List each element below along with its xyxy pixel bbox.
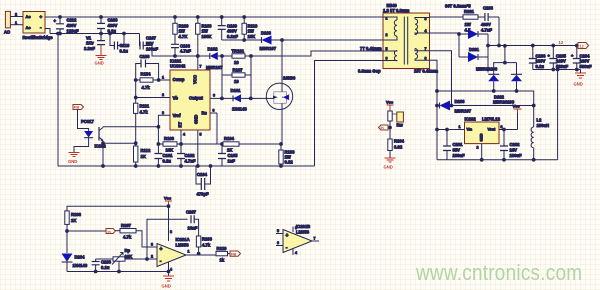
- svg-text:IC202: IC202: [465, 117, 477, 122]
- svg-text:4.7K: 4.7K: [179, 34, 188, 39]
- svg-text:7: 7: [425, 47, 427, 51]
- wire gate drive row to transformer pin5: [251, 51, 383, 56]
- wire parallel leg left: [221, 56, 223, 98]
- node junction RT row: [180, 143, 183, 146]
- wire Rs pin down to sense row: [216, 113, 218, 144]
- wire aux row to Vin: [437, 129, 465, 131]
- resistor R206: [65, 211, 82, 231]
- svg-text:+: +: [548, 53, 551, 58]
- transformer secondary winding 7-8: [415, 47, 430, 61]
- wire inverting row y259: [96, 258, 150, 260]
- diode D204 1N4148: [62, 254, 88, 272]
- svg-text:10: 10: [234, 60, 239, 65]
- svg-text:R154: R154: [141, 72, 152, 77]
- node junction R108 top: [196, 16, 199, 19]
- svg-text:+: +: [160, 247, 163, 253]
- svg-text:1W: 1W: [202, 29, 208, 34]
- svg-text:D201: D201: [469, 47, 480, 52]
- resistor R107: [222, 68, 251, 85]
- diode D202 MBR20200 pair: [488, 46, 522, 105]
- wire opamp low rail y271.5: [67, 271, 169, 273]
- svg-text:Rp: Rp: [125, 248, 131, 253]
- svg-text:MBR107: MBR107: [455, 109, 472, 114]
- svg-text:120uF: 120uF: [67, 29, 80, 34]
- pin 4 stub RT: [180, 130, 182, 144]
- svg-text:0.1u: 0.1u: [536, 64, 545, 69]
- resistor R204: [388, 139, 405, 159]
- svg-text:400V: 400V: [67, 23, 77, 28]
- svg-text:C105: C105: [228, 153, 239, 158]
- node junction R109 top: [174, 16, 177, 19]
- svg-text:R111: R111: [140, 104, 150, 109]
- svg-text:10: 10: [234, 79, 239, 84]
- wire bridge + to HV rail: [45, 16, 60, 18]
- svg-text:1: 1: [188, 250, 190, 254]
- wire regulator GND pin: [481, 144, 483, 160]
- svg-text:560uF: 560uF: [580, 64, 593, 69]
- node junction C108 bottom / V1 top: [100, 32, 103, 35]
- wire drain node to transformer pin2: [282, 39, 383, 41]
- node junction C112 top: [59, 16, 62, 19]
- svg-text:6: 6: [386, 57, 388, 61]
- op-amp IC201A LM358: [150, 237, 216, 267]
- svg-text:10N90: 10N90: [283, 76, 296, 81]
- svg-text:Output: Output: [189, 96, 203, 101]
- svg-text:C101: C101: [163, 153, 174, 158]
- svg-text:1N4148: 1N4148: [73, 263, 88, 268]
- capacitor C104 below rail: [196, 166, 211, 197]
- watermark www.cntronics.com: [416, 262, 582, 284]
- svg-text:2: 2: [477, 146, 479, 150]
- svg-text:0.2u: 0.2u: [163, 159, 172, 164]
- resistor R103: [163, 136, 177, 153]
- node junction opto emitter to rail: [102, 165, 105, 168]
- svg-text:2: 2: [386, 33, 388, 37]
- svg-text:16V: 16V: [510, 148, 518, 153]
- pin 5 stub GND: [197, 130, 199, 166]
- svg-text:C202: C202: [510, 142, 521, 147]
- svg-text:FB: FB: [231, 252, 236, 256]
- transformer aux winding 5-6: [383, 47, 397, 61]
- svg-text:Vcc: Vcc: [164, 196, 172, 201]
- wire opto emitter row: [103, 142, 136, 144]
- wire Vcc down to pin8: [168, 206, 170, 241]
- node junction C109 top: [220, 16, 223, 19]
- svg-text:UC3842: UC3842: [170, 64, 186, 69]
- wire aux row y105.5: [437, 105, 534, 107]
- node junction reg gnd: [480, 158, 483, 161]
- svg-text:Ac: Ac: [26, 14, 32, 19]
- pin 3 stub Rs: [210, 112, 217, 114]
- svg-text:TR101: TR101: [232, 49, 245, 54]
- node junction D202 right bottom: [515, 90, 518, 93]
- svg-text:1N4148: 1N4148: [232, 107, 247, 112]
- svg-text:7: 7: [200, 65, 202, 69]
- capacitor C105: [218, 144, 238, 166]
- capacitor C208: [92, 259, 112, 272]
- node junction C208 bottom: [94, 270, 97, 273]
- diode D102 MBR107: [198, 47, 223, 71]
- node junction R208 output: [197, 252, 200, 255]
- svg-text:+: +: [571, 53, 574, 58]
- svg-text:Vcc: Vcc: [386, 100, 394, 105]
- wire parallel leg right: [250, 56, 252, 98]
- svg-text:7: 7: [314, 237, 316, 241]
- svg-text:10K: 10K: [248, 34, 256, 39]
- wire neutral rail y33.5: [50, 33, 140, 35]
- node junction source node: [280, 143, 283, 146]
- node junction GND pin rail: [196, 165, 199, 168]
- svg-text:10K: 10K: [166, 148, 174, 153]
- svg-text:1Kv: 1Kv: [86, 41, 94, 46]
- node junction vcc opamp: [167, 205, 170, 208]
- svg-text:R201: R201: [464, 9, 475, 14]
- wire IC output to gate: [210, 97, 267, 99]
- port In right: [379, 125, 389, 130]
- resistor R106: [279, 144, 295, 166]
- resistor Rw trimmer: [388, 111, 404, 128]
- svg-text:0.1u: 0.1u: [120, 49, 129, 54]
- diode D101 1N4148: [231, 88, 248, 112]
- wire pin4 down: [168, 262, 170, 276]
- svg-text:Vb: Vb: [173, 96, 179, 101]
- svg-text:4.7nF: 4.7nF: [180, 49, 191, 54]
- capacitor C106: [171, 44, 191, 57]
- svg-text:100uF: 100uF: [510, 153, 523, 158]
- svg-text:IC201A: IC201A: [176, 237, 190, 242]
- svg-text:R107: R107: [233, 68, 244, 73]
- ground GND output: [574, 70, 587, 87]
- svg-text:400V: 400V: [108, 23, 118, 28]
- node junction D201 left: [458, 33, 461, 36]
- regulator IC202 LM78L12: [459, 117, 503, 150]
- svg-text:470pF: 470pF: [197, 192, 210, 197]
- svg-text:C203: C203: [483, 6, 494, 11]
- wire connector to bridge pin 1: [10, 24, 23, 26]
- svg-text:D101: D101: [231, 88, 242, 93]
- wire Vref pin to R103 leg: [158, 115, 170, 144]
- svg-text:400V: 400V: [227, 29, 237, 34]
- capacitor C202: [500, 130, 522, 160]
- svg-text:GND: GND: [480, 133, 484, 141]
- svg-text:4: 4: [425, 29, 427, 33]
- wire feedback up: [147, 219, 188, 259]
- ground GND under V1: [95, 45, 107, 66]
- svg-text:1W: 1W: [465, 22, 471, 27]
- port In left: [106, 229, 116, 234]
- capacitor C110: [114, 42, 130, 54]
- wire pin4 to D201: [430, 33, 460, 57]
- resistor R110: [242, 17, 258, 40]
- wire snubber down to output row: [498, 17, 500, 46]
- svg-text:1: 1: [386, 17, 388, 21]
- node junction In node: [389, 126, 392, 129]
- capacitor C108: [97, 17, 118, 34]
- node junction C110 right: [123, 32, 126, 35]
- resistor R108: [196, 17, 213, 56]
- svg-text:12: 12: [559, 40, 564, 45]
- wire Vout to Vcc port: [499, 129, 518, 131]
- svg-text:1nF: 1nF: [228, 159, 236, 164]
- transformer T1 EE40: [358, 3, 471, 74]
- svg-text:4.7k: 4.7k: [142, 85, 151, 90]
- svg-text:In: In: [108, 230, 111, 234]
- resistor R104: [222, 136, 281, 153]
- rectifier bridge U? RectifierBridge: [23, 12, 54, 41]
- svg-text:GND: GND: [95, 61, 104, 66]
- svg-text:AC: AC: [4, 29, 10, 34]
- wire neutral drop left x58: [57, 34, 59, 167]
- wire bridge - stub: [45, 29, 50, 34]
- resistor R154: [136, 72, 170, 91]
- svg-text:MBR107: MBR107: [206, 65, 223, 70]
- svg-text:D102: D102: [208, 47, 219, 52]
- svg-text:3: 3: [151, 243, 153, 247]
- node junction comp RC left: [134, 79, 137, 82]
- svg-text:C107: C107: [146, 36, 157, 41]
- node junction Vref collector: [157, 125, 160, 128]
- wire HV rail top y17: [60, 16, 383, 18]
- transistor Q1 10N90 MOSFET: [266, 76, 296, 110]
- svg-text:0.8mm Gap: 0.8mm Gap: [358, 69, 381, 74]
- svg-text:3: 3: [501, 125, 503, 129]
- opto coupler phototransistor: [99, 127, 103, 166]
- capacitor C101: [154, 153, 173, 164]
- wire pin3 to snubber: [430, 16, 464, 18]
- capacitor C206: [529, 46, 546, 70]
- svg-text:C208: C208: [101, 260, 112, 265]
- wire aux ground rail y159.8: [437, 159, 558, 161]
- node junction D202 top: [504, 45, 507, 48]
- capacitor C207: [186, 210, 199, 237]
- svg-text:4.7nF: 4.7nF: [481, 28, 492, 33]
- svg-text:3: 3: [425, 17, 427, 21]
- wire pin7 down to aux row: [430, 51, 452, 106]
- capacitor C204: [571, 46, 592, 70]
- wire C107 to VCC node: [143, 46, 198, 57]
- wire pin8 to D202 anode rail: [430, 60, 534, 160]
- power Vcc port op-amp: [164, 196, 172, 207]
- node junction drain top: [281, 39, 284, 42]
- node junction TR101 right: [250, 55, 253, 58]
- resistor R208: [196, 236, 212, 254]
- svg-text:L2: L2: [537, 118, 543, 123]
- node junction opto emitter split: [102, 142, 105, 145]
- node junction C101 bottom: [157, 165, 160, 168]
- wire neutral rail corner to C107: [139, 34, 142, 46]
- svg-text:8: 8: [162, 111, 164, 115]
- node junction C106 bottom: [174, 55, 177, 58]
- svg-text:R208: R208: [202, 237, 213, 242]
- svg-text:C207: C207: [186, 210, 197, 215]
- svg-text:4.7k: 4.7k: [202, 243, 211, 248]
- wire junction to In port: [67, 230, 106, 232]
- svg-text:Ac: Ac: [26, 25, 32, 30]
- wire C101 leg: [157, 144, 159, 166]
- svg-text:1W: 1W: [248, 29, 254, 34]
- svg-text:160V: 160V: [580, 59, 590, 64]
- svg-text:In: In: [381, 126, 384, 130]
- svg-text:5: 5: [386, 47, 388, 51]
- svg-text:Vout: Vout: [488, 128, 497, 132]
- power Vcc port reference divider: [386, 100, 394, 112]
- svg-text:7T 0.41mm: 7T 0.41mm: [360, 46, 382, 51]
- svg-text:MBR20200: MBR20200: [476, 67, 498, 72]
- svg-text:4.7k: 4.7k: [123, 235, 132, 240]
- ground GND op-amp: [162, 276, 175, 289]
- svg-text:2: 2: [15, 13, 17, 17]
- node junction Vin wire C201: [446, 128, 449, 131]
- svg-text:1,3 5T 0.8mm: 1,3 5T 0.8mm: [383, 8, 410, 13]
- svg-text:2: 2: [151, 255, 153, 259]
- node junction C202 bottom: [503, 158, 506, 161]
- svg-text:2: 2: [162, 93, 164, 97]
- node junction neutral drop: [57, 32, 60, 35]
- svg-text:+: +: [54, 19, 57, 24]
- svg-text:1K: 1K: [141, 154, 146, 159]
- svg-text:LM78L12: LM78L12: [482, 117, 501, 122]
- svg-text:0.22: 0.22: [285, 160, 294, 165]
- svg-text:Vcc: Vcc: [513, 104, 521, 109]
- wire output row y45.5: [488, 45, 578, 47]
- svg-text:1K: 1K: [71, 218, 76, 223]
- svg-text:Rs: Rs: [202, 111, 208, 116]
- wire C110 loop left leg: [110, 34, 114, 46]
- svg-text:1: 1: [459, 125, 461, 129]
- svg-text:8: 8: [295, 226, 297, 230]
- port 12 output: [559, 40, 589, 49]
- capacitor C107: [140, 36, 159, 52]
- svg-text:0.1u: 0.1u: [101, 265, 110, 270]
- node junction aux vin: [436, 128, 439, 131]
- svg-text:C201: C201: [453, 142, 464, 147]
- wire aux rail right leg up to sec gnd: [557, 70, 559, 160]
- svg-text:10nF: 10nF: [188, 226, 198, 231]
- diode D103 MBR107: [260, 31, 283, 52]
- svg-text:C112: C112: [67, 18, 77, 23]
- node junction D101 right: [249, 97, 252, 100]
- node junction C202 top: [503, 128, 506, 131]
- svg-text:Comp: Comp: [173, 77, 185, 82]
- wire MOSFET source down: [281, 109, 283, 144]
- node junction emitter divider: [134, 142, 137, 145]
- svg-text:VCC: VCC: [193, 75, 198, 84]
- svg-text:D103: D103: [261, 31, 272, 36]
- node junction pin7 aux: [450, 104, 453, 107]
- node junction aux L2: [532, 104, 535, 107]
- node junction D101 left: [221, 97, 224, 100]
- svg-text:R207: R207: [121, 223, 132, 228]
- capacitor C201: [443, 130, 465, 160]
- resistor R207: [116, 223, 151, 247]
- node junction Vb node: [134, 96, 137, 99]
- node junction C206 top: [531, 44, 534, 47]
- wire FB to opto LED: [78, 110, 89, 132]
- node junction R106 bottom: [280, 165, 283, 168]
- svg-text:R204: R204: [394, 139, 405, 144]
- svg-text:15T 0.41mm: 15T 0.41mm: [414, 69, 438, 74]
- svg-text:4: 4: [295, 251, 297, 255]
- svg-text:D204: D204: [75, 255, 86, 260]
- ground GND under opto: [68, 153, 80, 165]
- diode D203 MBR107: [440, 99, 472, 114]
- svg-text:GND: GND: [194, 115, 199, 124]
- pin 2 wire Vb: [136, 97, 170, 99]
- svg-text:1k: 1k: [220, 258, 225, 263]
- svg-text:4: 4: [183, 133, 185, 137]
- svg-text:RectifierBridge: RectifierBridge: [23, 35, 54, 40]
- svg-text:100K: 100K: [202, 34, 212, 39]
- wire primary ground rail y166: [58, 165, 315, 167]
- svg-text:C103: C103: [140, 54, 151, 59]
- capacitor C102: [177, 144, 196, 166]
- svg-text:Rw: Rw: [397, 123, 404, 128]
- node junction pot wiper: [118, 270, 121, 273]
- svg-text:Vref: Vref: [173, 113, 182, 118]
- svg-text:6: 6: [277, 241, 279, 245]
- power Vcc port regulator: [513, 104, 522, 130]
- svg-text:1: 1: [162, 76, 164, 80]
- svg-text:3: 3: [213, 109, 215, 113]
- wire connector to bridge pin 2: [10, 16, 23, 18]
- node junction R112 bottom: [134, 165, 137, 168]
- node junction C112 bottom: [59, 32, 62, 35]
- svg-text:Vin: Vin: [467, 128, 473, 132]
- resistor TR101: [222, 49, 251, 66]
- wire secondary ground rail y69.5: [533, 69, 581, 71]
- resistor R112: [134, 143, 151, 166]
- svg-text:+: +: [286, 233, 289, 239]
- node junction rail pin4: [167, 270, 170, 273]
- svg-text:10K: 10K: [125, 254, 133, 259]
- diode D201 MBR20200 pair: [459, 29, 498, 73]
- node junction C102 bottom: [180, 165, 183, 168]
- node junction VCC net: [196, 55, 199, 58]
- node junction sense row C105: [221, 143, 224, 146]
- svg-text:LM358: LM358: [176, 243, 190, 248]
- svg-text:1W: 1W: [179, 29, 185, 34]
- svg-text:+: +: [40, 14, 43, 19]
- svg-text:400V: 400V: [481, 22, 491, 27]
- node junction C204 bottom: [575, 68, 578, 71]
- svg-text:8: 8: [170, 230, 172, 234]
- node junction snubber output: [498, 44, 501, 47]
- port FB top: [73, 105, 84, 110]
- node junction C108 top: [100, 16, 103, 19]
- svg-text:C104: C104: [197, 172, 208, 177]
- node junction D202 left bottom: [492, 90, 495, 93]
- capacitor C103 comp network: [136, 54, 159, 80]
- svg-text:GND: GND: [574, 82, 583, 87]
- capacitor C112: [54, 17, 80, 34]
- wire drain vertical: [281, 40, 283, 84]
- svg-text:GND: GND: [68, 159, 77, 164]
- node junction C205 bottom: [552, 68, 555, 71]
- svg-text:R104: R104: [224, 136, 235, 141]
- node junction R206 bottom: [66, 230, 69, 233]
- ground GND divider: [384, 158, 396, 170]
- svg-text:12: 12: [580, 45, 584, 49]
- resistor R201: [463, 9, 478, 33]
- svg-text:8: 8: [425, 57, 427, 61]
- svg-text:R103: R103: [164, 136, 175, 141]
- node junction R103 left: [157, 143, 160, 146]
- svg-text:GND: GND: [384, 165, 393, 170]
- svg-text:0.1nF: 0.1nF: [227, 34, 238, 39]
- svg-text:1K: 1K: [227, 148, 232, 153]
- svg-text:4.7nF: 4.7nF: [185, 159, 196, 164]
- svg-text:RT: RT: [178, 121, 183, 127]
